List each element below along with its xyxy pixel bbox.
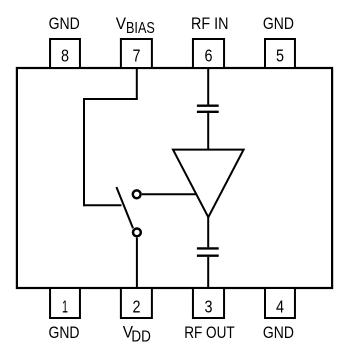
switch contact lower circle (133, 229, 141, 237)
wire lower contact to pin 2 (136, 238, 138, 288)
wire horizontal to switch blade (83, 204, 122, 206)
pin 3 box (193, 288, 224, 318)
svg-text:3: 3 (205, 297, 213, 317)
svg-text:4: 4 (276, 297, 284, 317)
package body (17, 68, 332, 288)
wire C2 to pin 3 (207, 257, 209, 288)
wire left vertical down (83, 98, 85, 206)
wire pin6 to C1 (207, 68, 209, 105)
pin 1 box (50, 288, 80, 318)
svg-text:2: 2 (133, 297, 141, 317)
svg-text:7: 7 (133, 46, 141, 66)
switch contact upper circle (133, 190, 141, 198)
svg-text:5: 5 (276, 46, 284, 66)
pin 4 box (265, 288, 295, 318)
svg-text:8: 8 (61, 46, 69, 66)
capacitor C1 bottom plate (197, 111, 219, 113)
svg-text:RF IN: RF IN (191, 15, 229, 33)
capacitor C1 top plate (197, 104, 219, 106)
svg-text:GND: GND (49, 15, 80, 33)
wire switch to amplifier (142, 193, 197, 195)
svg-text:GND: GND (49, 324, 80, 342)
svg-text:V: V (116, 15, 126, 33)
op-amp U1 (amplifier triangle) (173, 150, 244, 218)
svg-text:GND: GND (263, 15, 294, 33)
svg-text:1: 1 (62, 297, 68, 317)
capacitor C2 bottom plate (197, 254, 219, 256)
wire pin7 down (136, 68, 138, 99)
pin 2 box (121, 288, 152, 318)
svg-text:DD: DD (131, 329, 151, 346)
svg-text:GND: GND (263, 324, 294, 342)
wire C1 to amplifier input (207, 113, 209, 151)
pin 5 box (265, 39, 295, 68)
svg-text:RF OUT: RF OUT (184, 324, 235, 342)
pin 6 box (193, 39, 224, 68)
pin 7 box (121, 39, 152, 68)
wire amplifier output to C2 (207, 216, 209, 247)
pin 8 box (50, 39, 80, 68)
svg-text:6: 6 (205, 46, 213, 66)
svg-text:BIAS: BIAS (126, 20, 155, 37)
capacitor C2 top plate (197, 247, 219, 249)
wire horizontal to left (83, 98, 138, 100)
switch blade (116, 187, 133, 228)
